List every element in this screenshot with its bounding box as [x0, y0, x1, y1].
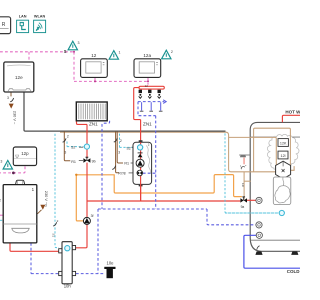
svg-text:2: 2 — [67, 134, 69, 138]
svg-text:12e: 12e — [15, 75, 23, 80]
svg-text:LAN: LAN — [19, 15, 27, 19]
svg-text:3: 3 — [78, 41, 80, 45]
svg-text:R: R — [2, 22, 6, 28]
svg-text:2: 2 — [120, 139, 122, 143]
svg-text:3: 3 — [45, 204, 47, 208]
svg-text:12l: 12l — [281, 154, 286, 158]
svg-text:12: 12 — [91, 53, 97, 58]
svg-text:2: 2 — [171, 50, 173, 54]
svg-text:R1: R1 — [124, 162, 129, 166]
svg-text:12l: 12l — [241, 183, 245, 187]
svg-text:9a: 9a — [241, 205, 245, 209]
svg-text:3: 3 — [118, 150, 120, 154]
svg-text:S2: S2 — [126, 147, 130, 151]
svg-text:COLD W: COLD W — [287, 269, 300, 274]
svg-text:2: 2 — [57, 219, 59, 223]
svg-text:3: 3 — [64, 151, 66, 155]
svg-text:10e: 10e — [107, 261, 115, 266]
svg-text:3: 3 — [7, 96, 9, 100]
svg-text:3: 3 — [0, 160, 2, 164]
svg-text:3f: 3f — [91, 214, 94, 218]
svg-text:230 V ~: 230 V ~ — [13, 111, 18, 125]
svg-text:S2: S2 — [71, 146, 75, 150]
svg-text:R7/8: R7/8 — [118, 171, 125, 175]
svg-text:9b: 9b — [92, 159, 96, 163]
svg-text:HOT WA: HOT WA — [285, 110, 300, 115]
svg-text:12p: 12p — [21, 151, 29, 156]
svg-text:R1: R1 — [71, 160, 76, 164]
svg-text:S: S — [64, 49, 67, 54]
svg-text:12a: 12a — [143, 53, 151, 58]
svg-text:12K: 12K — [280, 142, 287, 146]
svg-text:2: 2 — [0, 198, 1, 202]
svg-text:ZN1: ZN1 — [89, 122, 98, 127]
svg-text:1: 1 — [119, 51, 121, 55]
svg-text:10h: 10h — [64, 284, 72, 289]
svg-text:S1: S1 — [52, 233, 56, 237]
svg-text:WLAN: WLAN — [34, 15, 46, 19]
svg-text:ZN1: ZN1 — [143, 122, 152, 127]
